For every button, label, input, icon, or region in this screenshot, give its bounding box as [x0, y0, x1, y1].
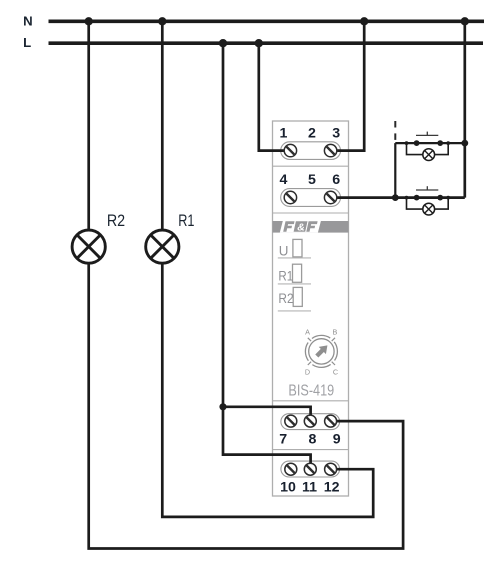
pushbutton S2 contacts [405, 195, 451, 201]
indicator R2 underline [278, 310, 311, 312]
svg-text:2: 2 [308, 126, 316, 142]
selector dial tick A [308, 338, 311, 341]
wire switch left riser [394, 143, 396, 198]
module separator line 3 [273, 400, 349, 402]
terminal screw 9 [325, 415, 337, 427]
svg-text:R2: R2 [107, 211, 125, 230]
svg-text:11: 11 [302, 479, 317, 495]
svg-text:C: C [333, 367, 338, 376]
wire dashed extension [394, 121, 396, 140]
svg-text:R1: R1 [278, 268, 293, 283]
lamp R2 [72, 230, 105, 263]
wire L to junction node [222, 43, 225, 407]
node switch S1 right junction [461, 140, 468, 147]
svg-text:10: 10 [280, 479, 296, 495]
svg-text:A: A [305, 327, 310, 336]
wire N to terminal 3 [331, 21, 365, 150]
indicator R2 LED window [293, 287, 302, 306]
svg-text:L: L [23, 35, 31, 50]
indicator R1 underline [278, 283, 311, 285]
terminal screw 11 [304, 463, 316, 475]
node L-terminal1 junction [255, 39, 263, 47]
selector dial tick D [308, 362, 311, 365]
indicator U LED window [293, 239, 302, 257]
terminal block 4-6 [281, 189, 341, 207]
terminal screw 8 [304, 415, 316, 427]
terminal screw 10 [285, 463, 297, 475]
terminal screw 6 [324, 191, 336, 203]
terminal block 1-3 [281, 142, 341, 160]
node N-terminal3 junction [360, 17, 368, 25]
lamp R1 [146, 230, 179, 263]
module separator line 1 [273, 165, 349, 167]
terminal screw 3 [324, 144, 336, 156]
wire L bus line [49, 41, 484, 45]
node junction dot L feed [219, 403, 226, 410]
svg-text:R2: R2 [278, 291, 293, 306]
wire switch S1 row [395, 142, 465, 144]
svg-text:R1: R1 [178, 211, 194, 230]
node L-junction feed [219, 39, 227, 47]
node N-R2 junction [85, 17, 93, 25]
svg-text:12: 12 [324, 479, 340, 495]
indicator R1 LED window [293, 264, 302, 282]
wire N bus line [49, 19, 485, 23]
module separator line 4 [273, 449, 349, 451]
svg-text:D: D [305, 367, 310, 376]
svg-text:4: 4 [280, 172, 288, 188]
node N-switch junction [461, 17, 469, 25]
wire junction to terminal 8 [223, 407, 311, 421]
wire N down to switches [463, 21, 466, 197]
pushbutton S2 actuator [416, 186, 438, 190]
pushbutton S1 contacts [405, 140, 451, 146]
svg-text:6: 6 [332, 172, 340, 188]
svg-text:N: N [23, 14, 33, 29]
wire N to lamp R1 [161, 21, 164, 230]
wire lamp R2 to terminal 9 return [89, 264, 403, 549]
selector dial inner knob [309, 339, 334, 364]
svg-text:BIS-419: BIS-419 [288, 383, 334, 400]
terminal block 7-9 [281, 414, 340, 430]
terminal screw 12 [325, 463, 337, 475]
terminal screw 7 [285, 415, 297, 427]
selector dial outer ring [305, 335, 337, 367]
terminal block 10-12 [281, 461, 340, 477]
svg-text:7: 7 [279, 431, 287, 447]
svg-text:3: 3 [332, 126, 340, 142]
wire N to lamp R2 [87, 21, 90, 230]
pushbutton S1 actuator [416, 132, 438, 136]
svg-text:1: 1 [280, 126, 288, 142]
pushbutton S1 indicator lamp [407, 143, 449, 160]
svg-text:B: B [333, 327, 338, 336]
wire lamp R1 to terminal 12 return [162, 264, 373, 517]
logo band F&F [273, 221, 349, 234]
pushbutton S2 indicator lamp [407, 198, 449, 215]
wire L to terminal 1 [259, 43, 291, 150]
node N-R1 junction [158, 17, 166, 25]
indicator U underline [278, 257, 311, 259]
terminal screw 1 [284, 144, 296, 156]
svg-text:&: & [297, 222, 305, 234]
wire junction to terminal 11 [223, 407, 311, 469]
svg-text:5: 5 [308, 172, 316, 188]
wire terminal 6 to switch branch [331, 196, 465, 199]
node switch S2 left junction [392, 194, 399, 201]
svg-text:9: 9 [333, 431, 341, 447]
terminal screw 4 [284, 191, 296, 203]
module separator line 2 [273, 212, 349, 214]
selector dial tick C [332, 362, 335, 365]
selector dial arrow [313, 342, 331, 360]
selector dial tick B [332, 338, 335, 341]
svg-text:U: U [279, 243, 289, 258]
svg-text:8: 8 [308, 431, 316, 447]
module BIS-419 body outline [273, 121, 349, 496]
